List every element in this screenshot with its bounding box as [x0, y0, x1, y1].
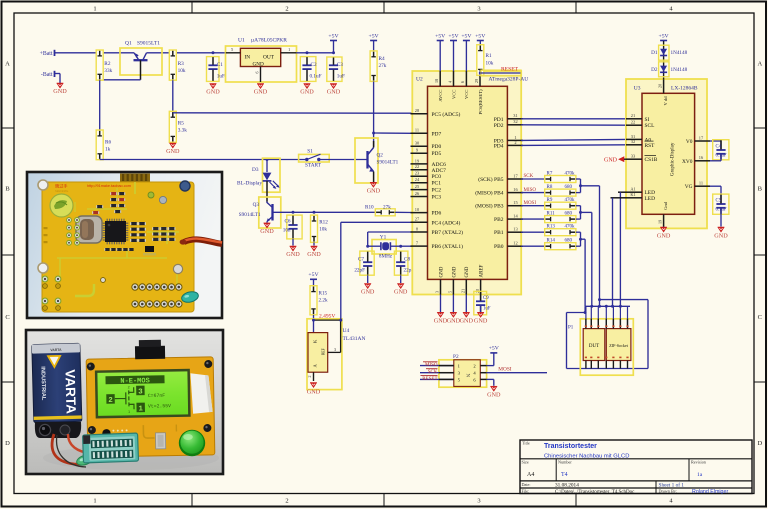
- svg-text:SCL: SCL: [645, 123, 655, 129]
- svg-text:2.2k: 2.2k: [319, 298, 328, 304]
- svg-text:V0: V0: [686, 139, 693, 145]
- svg-text:INDUSTRIAL: INDUSTRIAL: [39, 366, 46, 401]
- svg-text:C: C: [758, 314, 762, 321]
- svg-text:3: 3: [435, 291, 440, 293]
- svg-text:680: 680: [565, 239, 573, 244]
- svg-text:A: A: [757, 61, 762, 68]
- svg-text:C8: C8: [404, 257, 410, 263]
- svg-text:C5: C5: [716, 199, 722, 204]
- svg-text:D3: D3: [252, 167, 259, 173]
- svg-text:1N4148: 1N4148: [671, 67, 688, 73]
- svg-text:GND: GND: [394, 289, 408, 296]
- svg-text:21: 21: [631, 113, 635, 118]
- svg-text:+5V: +5V: [328, 33, 339, 39]
- svg-text:+Batt: +Batt: [40, 51, 53, 57]
- svg-text:GND: GND: [166, 148, 180, 155]
- svg-text:GND: GND: [434, 317, 448, 324]
- svg-text:SCK: SCK: [428, 370, 438, 375]
- svg-text:DUT: DUT: [589, 344, 599, 349]
- svg-text:P1: P1: [568, 326, 574, 331]
- svg-text:Transistortester: Transistortester: [544, 443, 597, 450]
- svg-text:PD5: PD5: [432, 151, 442, 157]
- svg-text:11: 11: [699, 181, 703, 186]
- svg-text:10k: 10k: [178, 68, 186, 74]
- svg-text:19: 19: [657, 220, 662, 224]
- svg-text:680: 680: [565, 212, 573, 217]
- svg-text:Drawn By:: Drawn By:: [659, 489, 678, 494]
- svg-text:470k: 470k: [565, 172, 576, 177]
- svg-text:B: B: [5, 186, 10, 193]
- svg-text:C9: C9: [483, 296, 489, 301]
- svg-text:RST: RST: [645, 143, 656, 149]
- svg-text:R11: R11: [547, 212, 556, 217]
- svg-text:VCC: VCC: [451, 90, 456, 99]
- svg-text:PB0: PB0: [494, 244, 504, 250]
- svg-text:+5V: +5V: [489, 346, 500, 352]
- svg-text:PC0: PC0: [432, 174, 442, 180]
- svg-text:1k: 1k: [105, 147, 111, 153]
- svg-text:PD4: PD4: [494, 143, 504, 149]
- svg-text:R9: R9: [547, 198, 553, 203]
- svg-text:C7: C7: [358, 257, 364, 263]
- svg-text:+5V: +5V: [369, 33, 380, 39]
- svg-text:A1: A1: [630, 187, 635, 192]
- svg-text:10k: 10k: [319, 227, 327, 233]
- svg-text:N: N: [465, 373, 470, 377]
- svg-text:1: 1: [128, 411, 130, 415]
- svg-text:晓过手: 晓过手: [55, 183, 68, 190]
- svg-text:GND: GND: [300, 89, 314, 96]
- svg-text:D: D: [757, 440, 762, 447]
- svg-text:K1: K1: [630, 192, 635, 197]
- svg-text:GND: GND: [487, 392, 501, 399]
- svg-text:OUT: OUT: [263, 54, 275, 60]
- svg-text:C: C: [5, 314, 9, 321]
- svg-text:R10: R10: [365, 204, 374, 210]
- svg-text:CS1B: CS1B: [645, 157, 658, 163]
- svg-text:29: 29: [474, 79, 479, 83]
- svg-text:TL431AN: TL431AN: [343, 336, 366, 342]
- svg-text:31: 31: [631, 134, 635, 139]
- svg-text:A: A: [5, 61, 10, 68]
- svg-text:ADC7: ADC7: [432, 168, 447, 174]
- svg-text:1uF: 1uF: [217, 74, 225, 80]
- svg-text:AREF: AREF: [480, 265, 485, 278]
- svg-text:T4: T4: [561, 472, 568, 478]
- svg-text:C1: C1: [217, 62, 223, 68]
- svg-text:680: 680: [565, 185, 573, 190]
- svg-text:32: 32: [513, 119, 517, 124]
- svg-text:1N4148: 1N4148: [671, 50, 688, 56]
- svg-text:Number: Number: [558, 459, 572, 464]
- svg-text:V dd: V dd: [663, 96, 668, 106]
- svg-text:1: 1: [138, 405, 143, 413]
- svg-text:Title: Title: [522, 441, 530, 446]
- svg-text:U3: U3: [634, 86, 641, 92]
- svg-text:(MISO) PB4: (MISO) PB4: [475, 190, 504, 197]
- svg-text:A4: A4: [527, 472, 534, 478]
- svg-text:R1: R1: [486, 53, 492, 59]
- svg-text:3: 3: [477, 498, 480, 505]
- svg-text:IN: IN: [245, 54, 251, 60]
- svg-text:11: 11: [415, 128, 419, 133]
- svg-text:GND: GND: [361, 289, 375, 296]
- svg-text:+5V: +5V: [475, 33, 486, 39]
- svg-text:+5V: +5V: [659, 33, 670, 39]
- svg-text:GND: GND: [206, 89, 220, 96]
- svg-text:PB7 (XTAL2): PB7 (XTAL2): [432, 229, 464, 236]
- svg-text:PD0: PD0: [432, 144, 442, 150]
- svg-text:PB6 (XTAL1): PB6 (XTAL1): [432, 243, 464, 250]
- svg-text:GND: GND: [254, 89, 268, 96]
- svg-text:SI: SI: [645, 117, 650, 123]
- svg-text:3.3k: 3.3k: [178, 128, 188, 134]
- svg-text:R3: R3: [178, 61, 185, 67]
- svg-text:PC4 (ADC4): PC4 (ADC4): [432, 219, 461, 226]
- svg-text:Chinesischer Nachbau mit GLCD: Chinesischer Nachbau mit GLCD: [544, 453, 629, 459]
- svg-text:1: 1: [288, 47, 290, 52]
- svg-text:S1: S1: [307, 148, 313, 154]
- svg-text:GND: GND: [53, 88, 67, 95]
- svg-text:LX-12864B: LX-12864B: [671, 86, 698, 92]
- svg-text:1a: 1a: [697, 472, 703, 478]
- svg-text:P2: P2: [453, 354, 459, 360]
- svg-text:REF: REF: [322, 348, 326, 355]
- svg-text:ATmega328P-AU: ATmega328P-AU: [489, 77, 529, 83]
- svg-text:12: 12: [513, 241, 517, 246]
- svg-text:1: 1: [93, 6, 96, 13]
- svg-text:PC2: PC2: [432, 188, 442, 194]
- svg-text:PB2: PB2: [494, 217, 504, 223]
- svg-text:Revision: Revision: [691, 459, 707, 464]
- svg-text:22pF: 22pF: [354, 268, 365, 274]
- svg-text:Q2: Q2: [377, 153, 384, 159]
- svg-text:21: 21: [461, 289, 466, 293]
- svg-text:0.1uF: 0.1uF: [310, 74, 322, 80]
- svg-text:XV0: XV0: [682, 159, 693, 165]
- svg-text:470k: 470k: [565, 225, 576, 230]
- svg-text:AVCC: AVCC: [438, 90, 443, 102]
- svg-text:2: 2: [514, 140, 516, 145]
- svg-text:START: START: [305, 162, 322, 168]
- svg-text:Q1: Q1: [125, 41, 132, 47]
- svg-text:C6: C6: [284, 219, 290, 225]
- svg-text:33k: 33k: [104, 68, 112, 74]
- svg-text:1uF: 1uF: [483, 307, 491, 312]
- svg-text:GND: GND: [367, 187, 381, 194]
- svg-text:MOSI: MOSI: [498, 367, 511, 373]
- svg-text:1: 1: [93, 498, 96, 505]
- svg-text:R15: R15: [319, 291, 328, 297]
- svg-text:GND: GND: [307, 251, 321, 258]
- svg-text:BL-Display: BL-Display: [237, 180, 262, 186]
- svg-text:R6: R6: [105, 140, 112, 146]
- svg-text:N-E-MOS: N-E-MOS: [120, 377, 150, 386]
- svg-text:MISO: MISO: [425, 363, 438, 368]
- svg-text:VG: VG: [685, 184, 693, 190]
- svg-text:2: 2: [307, 376, 312, 378]
- svg-text:GND: GND: [714, 232, 728, 239]
- svg-text:D2: D2: [651, 67, 658, 73]
- svg-text:PD7: PD7: [432, 131, 442, 137]
- svg-text:10k: 10k: [486, 61, 494, 67]
- svg-text:2: 2: [285, 498, 288, 505]
- svg-text:+5V: +5V: [448, 33, 459, 39]
- svg-text:µA78L05CPKR: µA78L05CPKR: [251, 38, 287, 44]
- svg-text:GND: GND: [253, 61, 264, 67]
- svg-text:GND: GND: [260, 228, 274, 235]
- svg-text:2: 2: [108, 397, 113, 405]
- svg-text:GND: GND: [452, 266, 457, 277]
- svg-text:8MHz: 8MHz: [379, 253, 393, 259]
- svg-text:18: 18: [434, 79, 439, 83]
- svg-text:+5V: +5V: [461, 33, 472, 39]
- svg-text:GND: GND: [604, 158, 618, 164]
- svg-text:6: 6: [460, 81, 465, 83]
- svg-text:RESET: RESET: [501, 67, 519, 73]
- svg-text:R4: R4: [379, 56, 386, 62]
- svg-text:C3: C3: [337, 62, 343, 68]
- svg-text:Gnd: Gnd: [663, 201, 668, 210]
- svg-text:GND: GND: [439, 266, 444, 277]
- svg-text:(MOSI) PB3: (MOSI) PB3: [475, 203, 504, 210]
- svg-text:GND: GND: [465, 266, 470, 277]
- svg-text:R2: R2: [104, 61, 111, 67]
- svg-text:PC1: PC1: [432, 181, 442, 187]
- svg-text:PC6(RESET): PC6(RESET): [478, 89, 483, 114]
- svg-text:RESET: RESET: [422, 377, 437, 382]
- svg-text:22: 22: [415, 164, 419, 169]
- svg-text:2: 2: [285, 6, 288, 13]
- svg-text:D: D: [5, 440, 10, 447]
- svg-text:R12: R12: [319, 220, 328, 226]
- svg-text:PB1: PB1: [494, 230, 504, 236]
- svg-text:S9014LT1: S9014LT1: [377, 160, 399, 166]
- svg-text:Roland Elmiger: Roland Elmiger: [692, 489, 728, 495]
- svg-text:GND: GND: [447, 317, 461, 324]
- svg-text:U2: U2: [416, 77, 423, 83]
- svg-text:PC5 (ADC5): PC5 (ADC5): [432, 111, 461, 118]
- svg-text:C:\Daten\..\Transistortester_T: C:\Daten\..\Transistortester_T4.SchDoc: [555, 490, 635, 495]
- svg-text:31.08.2014: 31.08.2014: [555, 482, 579, 488]
- svg-text:3: 3: [477, 6, 480, 13]
- svg-text:C=67nF: C=67nF: [148, 393, 165, 399]
- svg-text:10n: 10n: [283, 228, 291, 234]
- svg-text:+5V: +5V: [308, 272, 319, 278]
- svg-text:ZIF-Socket: ZIF-Socket: [609, 343, 629, 348]
- svg-text:U1: U1: [238, 38, 245, 44]
- svg-text:31: 31: [513, 113, 517, 118]
- svg-text:GND: GND: [460, 317, 474, 324]
- svg-text:GND: GND: [474, 317, 488, 324]
- svg-text:20: 20: [657, 84, 662, 88]
- svg-text:6: 6: [254, 72, 259, 74]
- svg-text:S9015LT1: S9015LT1: [137, 41, 160, 47]
- svg-text:LED: LED: [645, 196, 656, 202]
- svg-text:PC3: PC3: [432, 195, 442, 201]
- svg-text:470k: 470k: [565, 198, 576, 203]
- svg-text:R14: R14: [547, 239, 556, 244]
- svg-text:5: 5: [448, 291, 453, 293]
- svg-text:Vt=2.55V: Vt=2.55V: [148, 403, 171, 409]
- svg-text:B: B: [758, 186, 763, 193]
- svg-text:VARTA: VARTA: [50, 348, 62, 352]
- svg-text:1uF: 1uF: [337, 74, 345, 80]
- svg-text:22: 22: [631, 120, 635, 125]
- svg-text:GND: GND: [307, 389, 321, 396]
- svg-text:C4: C4: [716, 144, 722, 149]
- svg-text:32: 32: [631, 139, 635, 144]
- svg-text:(SCK) PB5: (SCK) PB5: [478, 176, 503, 183]
- svg-text:-Batt: -Batt: [41, 72, 53, 78]
- svg-text:+5V: +5V: [435, 33, 446, 39]
- svg-text:http;//91make.taobao.com: http;//91make.taobao.com: [87, 184, 131, 188]
- svg-text:C2: C2: [311, 62, 317, 68]
- svg-text:2: 2: [128, 386, 130, 390]
- svg-text:D1: D1: [651, 50, 658, 56]
- svg-text:R7: R7: [547, 172, 553, 177]
- svg-text:SEEKE9Be: SEEKE9Be: [55, 189, 69, 193]
- svg-text:GND: GND: [327, 89, 341, 96]
- svg-text:Q3: Q3: [253, 202, 260, 208]
- svg-text:Graphic-Display: Graphic-Display: [671, 142, 676, 176]
- svg-text:GND: GND: [286, 251, 300, 258]
- svg-text:27k: 27k: [379, 63, 387, 69]
- svg-text:VCC: VCC: [464, 90, 469, 99]
- svg-text:File:: File:: [522, 489, 530, 494]
- svg-text:R13: R13: [547, 225, 556, 230]
- svg-text:Sheet 1 of 1: Sheet 1 of 1: [659, 481, 685, 488]
- svg-text:Date:: Date:: [522, 482, 531, 487]
- svg-text:3: 3: [334, 347, 336, 352]
- svg-text:S9014LT1: S9014LT1: [239, 212, 261, 218]
- svg-text:PD6: PD6: [432, 211, 442, 217]
- svg-text:VARTA: VARTA: [62, 369, 78, 414]
- svg-text:PD2: PD2: [494, 123, 504, 129]
- svg-text:R8: R8: [547, 185, 553, 190]
- svg-text:GND: GND: [657, 232, 671, 239]
- svg-text:U4: U4: [343, 328, 350, 334]
- svg-text:3: 3: [138, 388, 143, 396]
- svg-text:Y1: Y1: [380, 234, 387, 240]
- svg-text:27k: 27k: [383, 204, 391, 210]
- svg-text:Size: Size: [522, 459, 529, 464]
- svg-text:R5: R5: [178, 121, 185, 127]
